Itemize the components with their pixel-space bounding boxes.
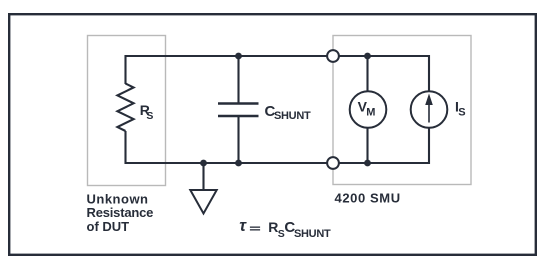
wire voltmeter top branch (366, 56, 368, 91)
wire voltmeter bottom branch (366, 128, 368, 163)
terminal node bottom (open circle) (327, 157, 339, 169)
voltmeter VM circle (350, 91, 387, 128)
wire bottom rail (126, 129, 430, 164)
svg-text:M: M (366, 106, 375, 118)
svg-text:Unknown: Unknown (87, 191, 149, 206)
svg-text:SHUNT: SHUNT (294, 228, 331, 240)
wire capacitor top branch (237, 56, 239, 104)
svg-text:S: S (458, 106, 465, 118)
svg-text:4200 SMU: 4200 SMU (335, 191, 401, 206)
svg-text:S: S (146, 110, 153, 122)
svg-text:Resistance: Resistance (87, 205, 154, 220)
svg-text:of DUT: of DUT (87, 219, 130, 234)
wire capacitor bottom branch (237, 116, 239, 163)
DUT box (gray) (88, 36, 166, 186)
ground stem wire (202, 163, 204, 190)
junction dot capacitor bottom (235, 160, 242, 167)
svg-text:SHUNT: SHUNT (274, 110, 311, 122)
junction dot capacitor top (235, 53, 242, 60)
4200 SMU box (gray) (333, 36, 471, 185)
junction dot voltmeter top (364, 53, 371, 60)
current source arrow shaft (428, 103, 430, 123)
terminal node top (open circle) (327, 50, 339, 62)
junction dot voltmeter bottom (364, 160, 371, 167)
current source arrowhead (425, 94, 433, 106)
current source IS circle (411, 91, 448, 128)
ground junction dot (200, 160, 207, 167)
wire top rail (126, 56, 430, 91)
resistor RS zigzag (117, 84, 133, 132)
capacitor CSHUNT plates (218, 102, 259, 104)
ground symbol triangle (190, 190, 216, 214)
